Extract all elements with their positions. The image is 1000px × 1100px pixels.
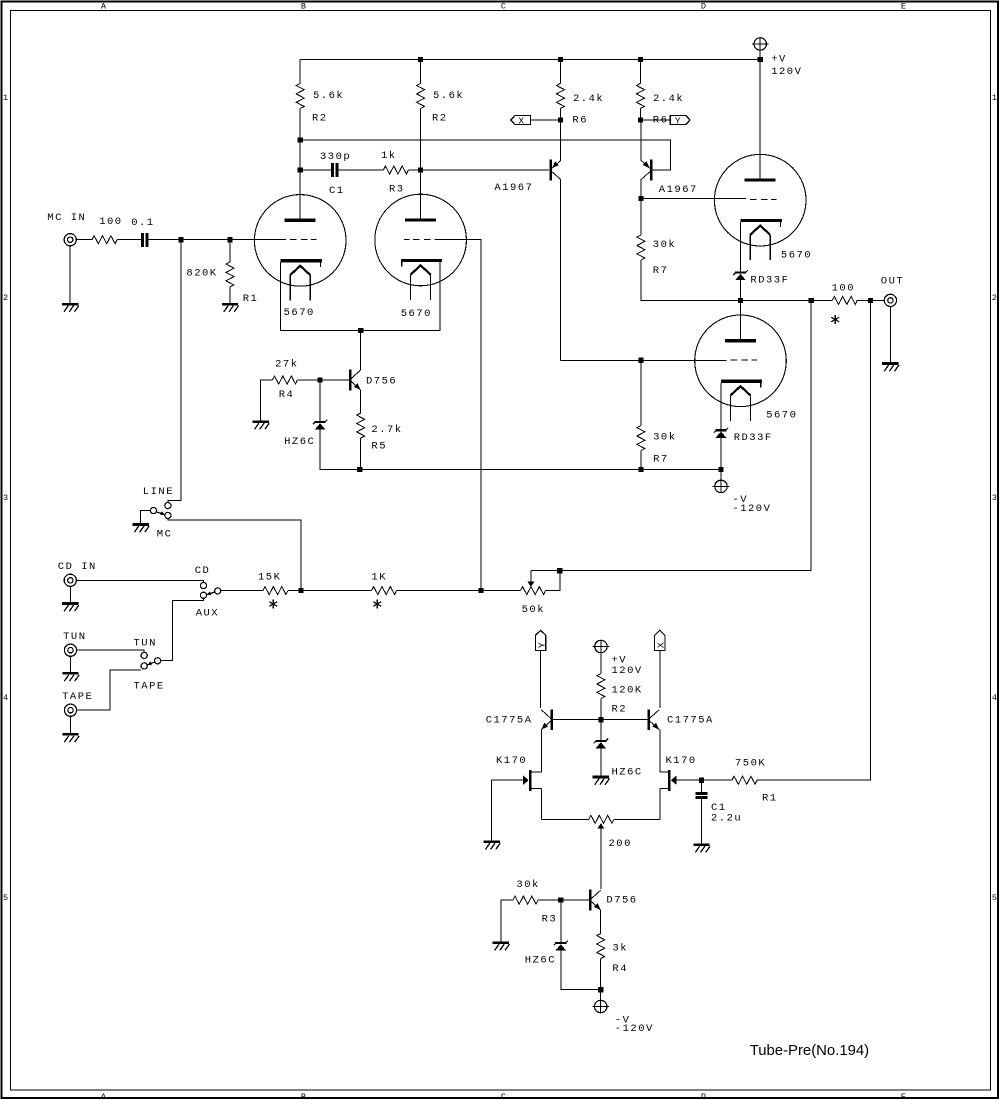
svg-text:R6: R6 [653,115,669,127]
svg-text:1: 1 [3,93,8,103]
label 100 (output) [832,283,855,295]
wire CD to contact [77,580,204,582]
resistor 1K [372,587,397,595]
svg-text:15K: 15K [258,572,281,584]
node wiper junction [557,568,562,573]
svg-text:E: E [901,1092,906,1100]
svg-text:C1: C1 [329,185,345,197]
svg-text:R3: R3 [542,914,558,926]
wire S2 common to 15K [221,590,263,592]
node base-HZ6C tap [318,377,323,382]
svg-text:D756: D756 [606,894,637,906]
wire TUN jack ground [70,656,72,672]
label R6 (left) [572,115,588,127]
label 2.4k (left) [573,93,604,105]
label 2.7k [371,424,402,436]
tube V1 5670 (left triode) [254,195,346,301]
switch S2 common contact [215,588,221,594]
svg-text:3: 3 [992,493,997,503]
wire out line [741,299,812,301]
wire S1 common to ground [141,511,151,524]
svg-text:K170: K170 [666,755,697,767]
wire V4 cathode to zener [720,383,722,429]
flag X lower [655,630,667,650]
svg-text:TUN: TUN [134,638,157,650]
node plate1-C1 tap [298,167,303,172]
ground C1 2.2u [693,845,710,853]
wire rail to R6-1 [560,59,562,83]
wire D756 emitter to R5 [360,390,362,413]
label R3 (30k) [542,914,558,926]
resistor 100 output [832,296,857,304]
wire R6-2 node to Q2 emitter [640,120,642,160]
wire 30k-R3 left [501,900,513,942]
zener D2 RD33F lower [714,428,728,438]
wire HZ6C-2 bottom [561,951,601,990]
wire HZ6C-2 top [560,900,562,942]
svg-text:RD33F: RD33F [750,275,789,287]
label 0.1 [131,217,154,229]
svg-text:100: 100 [832,283,855,295]
node -V lower [598,987,603,992]
node rail-R2b [418,57,423,62]
power +V 120V supply [752,38,769,60]
svg-text:X: X [656,642,667,648]
resistor R1 750K [732,776,757,784]
label R4 (27k) [279,389,295,401]
connector CD IN jack [64,574,76,586]
switch S2 CD contact [200,583,206,589]
svg-text:TAPE: TAPE [134,681,165,693]
resistor R2 120K [597,674,605,699]
svg-text:2.4k: 2.4k [653,93,684,105]
label R2 (left) [312,113,328,125]
label 120K [612,685,643,697]
zener D3 HZ6C (upper) [313,420,327,430]
label -V (lower) [615,1015,631,1027]
wire 30k to base [538,899,589,901]
label R4 (3k) [612,963,628,975]
wire MC jack ground [69,246,71,303]
label 820K [186,268,217,280]
transistor Q5 C1775A (right) [647,709,659,730]
svg-text:R6: R6 [572,115,588,127]
resistor R3 30k [513,896,538,904]
svg-text:2.4k: 2.4k [573,93,604,105]
resistor R7 30k lower [637,426,645,451]
svg-text:2: 2 [992,293,997,303]
wire X flag to Q5 collector [659,651,661,708]
switch S2 lever [207,591,215,595]
wire 3k bottom [600,959,602,990]
wire source line right [614,818,660,820]
svg-text:750K: 750K [735,758,766,770]
label CD IN [58,561,97,573]
svg-text:RD33F: RD33F [734,432,773,444]
resistor R1 820K [226,262,234,287]
transistor Q6 K170 (left) [523,770,541,791]
resistor R7 30k upper [637,235,645,260]
label -120V (lower) [615,1023,654,1035]
svg-text:5670: 5670 [401,308,432,320]
label R3 [389,183,405,195]
power -V 120V lower [592,990,609,1013]
svg-text:5670: 5670 [766,410,797,422]
svg-text:B: B [301,1092,306,1100]
wire K170-2 source down [659,789,661,820]
switch S1 LINE contact [165,503,171,509]
wire Q5 emitter to K170 drain [659,730,661,773]
wire R100out to jack [857,299,884,301]
resistor R2 5.6k right [417,83,425,108]
tube V2 5670 (second triode) [375,194,467,300]
node X flag junction [558,117,563,122]
capacitor C1 330p [331,163,339,177]
svg-text:-120V: -120V [615,1023,654,1035]
label 5670 (V1) [284,307,315,319]
svg-text:R2: R2 [432,113,448,125]
wire Q2 collector down [640,180,642,199]
label CD [195,565,211,577]
transistor Q3 D756 (upper) [349,370,361,391]
svg-text:R4: R4 [612,963,628,975]
connector TUN jack [64,644,76,656]
svg-text:R1: R1 [762,793,778,805]
wire K170-1 gate [492,779,523,781]
label LINE [143,486,174,498]
flag Y lower [535,630,547,650]
wire Q2 collector to tube3 grid [641,198,746,200]
label 5670 (V2) [401,308,432,320]
label R6 (right) [653,115,669,127]
svg-text:30k: 30k [516,879,539,891]
svg-text:C: C [501,1092,506,1100]
label 120V [771,66,802,78]
wire R6-2 to node [640,108,642,120]
wire 820K top [229,240,231,262]
node out-R1 tap [868,298,873,303]
wire AUX routing [161,598,204,660]
svg-text:120V: 120V [771,66,802,78]
svg-text:200: 200 [609,838,632,850]
wire HZ6C-1 bottom [320,430,360,470]
wire jack to R 100 [76,239,92,241]
wire R7-1 to out line [641,260,741,300]
wire wiper line [531,300,811,570]
connector MC IN jack [64,234,76,246]
node -V rail end [718,467,723,472]
wire TAPE to contact [77,670,141,710]
svg-text:R4: R4 [279,389,295,401]
svg-text:R2: R2 [612,704,628,716]
svg-text:HZ6C: HZ6C [284,436,315,448]
node grid4-R7 tap [638,358,643,363]
flag X upper [511,115,531,126]
svg-text:HZ6C: HZ6C [525,954,556,966]
resistor 15K [263,587,288,595]
capacitor C1 2.2u [695,792,707,799]
wire zener2 to -V [720,438,722,470]
switch S3 lever [147,662,155,666]
svg-text:1: 1 [992,93,997,103]
wire plate1 to Q2 base [300,140,670,170]
svg-text:D756: D756 [366,376,397,388]
ground TUN [62,673,79,681]
power +V 120V lower [593,640,610,673]
label D756 (upper) [366,376,397,388]
wire HZ6C-1 top [319,380,321,421]
wire TUN to contact [77,650,145,652]
transistor Q7 K170 (right) [660,770,677,791]
wire Y flag to Q4 collector [540,651,542,708]
ground 27k [253,422,270,430]
label * (output) [831,315,839,324]
ground CD IN [62,604,79,612]
wire base line [553,719,647,721]
svg-text:R2: R2 [312,113,328,125]
label * (15K) [269,599,277,608]
zener D1 RD33F upper [733,270,747,280]
resistor R6 2.4k left [557,83,565,108]
node cathode bus [358,328,363,333]
svg-text:R3: R3 [389,183,405,195]
wire X flag [531,119,561,121]
wire 1K to pot [397,590,521,592]
node R7-2 -V [638,467,643,472]
label 120V (lower) [612,665,643,677]
label C1 (330p) [329,185,345,197]
svg-text:E: E [901,1,906,11]
svg-text:+V: +V [771,53,787,65]
svg-text:MC: MC [157,529,173,541]
wire R100 to cap [117,239,141,241]
wire plate4 lead [740,300,742,339]
wire R2-1 to plate [299,108,301,218]
resistor R4 3k [597,934,605,959]
wire C1 cap top [701,780,703,792]
wire K170-1 gate ground [491,780,493,840]
svg-text:Y: Y [536,642,547,648]
transistor Q8 D756 (lower) [589,890,601,911]
svg-text:TUN: TUN [63,631,86,643]
label K170 (left) [496,755,527,767]
label TAPE (switch) [134,681,165,693]
svg-text:3k: 3k [612,942,628,954]
switch S3 common contact [155,658,161,664]
label TUN (switch) [134,638,157,650]
label 750K [735,758,766,770]
svg-text:C1775A: C1775A [667,714,714,726]
resistor R4 27k [272,376,297,384]
svg-text:100: 100 [99,216,122,228]
label D756 (lower) [606,894,637,906]
wire TAPE jack ground [70,716,72,733]
label * (1K) [373,599,381,608]
flag Y upper [670,115,690,126]
label R7 (lower) [653,454,669,466]
svg-text:2: 2 [3,293,8,303]
connector TAPE jack [64,704,76,716]
label 1k [381,150,397,162]
svg-text:Y: Y [675,115,681,126]
wire rail to R2-1 [299,59,301,83]
wire rail to R6-2 [640,59,642,83]
svg-text:Tube-Pre(No.194): Tube-Pre(No.194) [750,1043,869,1059]
svg-text:120K: 120K [612,685,643,697]
ground MC IN [62,304,79,312]
label 27k [275,359,298,371]
svg-text:R7: R7 [653,454,669,466]
wire plate3 lead [759,59,761,178]
power -V 120V upper [713,470,730,493]
wire C1 cap ground [701,799,703,844]
svg-text:R5: R5 [371,440,387,452]
node plate2-R3 tap [418,167,423,172]
wire V2 cathode down [361,262,441,331]
label C1 (2.2u) [711,802,727,814]
transistor Q4 C1775A (left) [541,709,553,730]
svg-text:HZ6C: HZ6C [612,767,643,779]
ground OUT [882,364,899,372]
label HZ6C (bottom) [525,954,556,966]
node out-plate4 [738,298,743,303]
resistor R2 5.6k left [296,83,304,108]
wire CD jack ground [69,586,71,602]
switch S3 TUN contact [141,652,147,658]
resistor R3 1k [383,166,408,174]
wire Q1 collector down [560,180,562,360]
label -120V (upper) [732,503,771,515]
svg-text:5.6k: 5.6k [433,90,464,102]
wire HZ6C-3 bottom [600,749,602,776]
svg-text:R7: R7 [653,265,669,277]
label 1K [371,572,387,584]
svg-text:B: B [301,1,306,11]
node Y flag junction [638,117,643,122]
label 5.6k (R2 left) [313,90,344,102]
svg-text:CD IN: CD IN [58,561,97,573]
resistor R5 2.7k [357,413,365,438]
wire plate2 node to Q1 base [421,169,550,171]
node plate1-base2 tap [298,137,303,142]
label A1967 (left) [494,182,533,194]
label R2 (right) [432,113,448,125]
label 5670 (V3) [781,250,812,262]
resistor 100 input [92,236,117,244]
label 30k (lower) [653,432,676,444]
svg-text:1k: 1k [381,150,397,162]
label 30k (upper) [653,239,676,251]
wire source line left [541,818,589,820]
potentiometer 200 [589,815,614,889]
svg-text:A: A [101,1,107,11]
svg-text:R1: R1 [243,293,259,305]
label 15K [258,572,281,584]
svg-text:50k: 50k [522,604,545,616]
ground S1 [132,525,149,533]
svg-text:27k: 27k [275,359,298,371]
wire Q1 collector to tube4 grid [561,359,727,361]
svg-text:MC IN: MC IN [47,212,86,224]
ground 820K [222,304,239,312]
wire out line 2 [811,299,832,301]
zener D4 HZ6C (middle) [594,739,608,749]
ground HZ6C middle [593,777,610,785]
label 5.6k (R2 right) [433,90,464,102]
wire -V line [320,469,721,471]
wire V3 cathode to zener [740,222,742,272]
svg-text:A1967: A1967 [494,182,533,194]
svg-text:30k: 30k [653,239,676,251]
svg-text:4: 4 [992,693,997,703]
svg-text:5: 5 [992,893,997,903]
svg-text:4: 4 [3,693,8,703]
svg-text:A: A [101,1092,107,1100]
label A1967 (right) [659,184,698,196]
label OUT [881,275,904,287]
svg-text:1K: 1K [371,572,387,584]
potentiometer 50k [521,571,546,595]
label R1 (750K) [762,793,778,805]
tube V4 5670 (lower follower) [695,315,787,421]
wire MC contact to bus [168,519,301,591]
wire HZ6C-3 top [600,720,602,740]
svg-text:A1967: A1967 [659,184,698,196]
wire input to LINE contact [168,240,181,503]
svg-text:D: D [701,1092,706,1100]
svg-text:-120V: -120V [732,503,771,515]
svg-text:CD: CD [195,565,211,577]
node rail-R6a [558,57,563,62]
resistor R6 2.4k right [637,83,645,108]
wire D756-2 emitter to 3k [600,910,602,934]
wire bus to D756 collector [360,331,362,371]
tube V3 5670 (upper follower) [714,154,806,260]
label 5670 (V4) [766,410,797,422]
node 820K tap [227,237,232,242]
wire cap to grid [149,239,230,241]
label 100 (input) [99,216,122,228]
wire K170-1 source down [540,789,542,820]
wire R6-1 to node [560,108,562,120]
transistor Q1 A1967 (left) [549,160,561,181]
svg-text:C1775A: C1775A [486,714,533,726]
wire V2 grid feedback [435,240,482,591]
label K170 (right) [666,755,697,767]
wire 15K to 1K [288,590,372,592]
label 2.2u [711,813,742,825]
svg-text:5.6k: 5.6k [313,90,344,102]
wire plate1 to C1 [300,169,331,171]
label 2.4k (right) [653,93,684,105]
svg-text:820K: 820K [186,268,217,280]
wire V1 grid lead [230,239,286,241]
switch S2 AUX contact [200,592,206,598]
label MC [157,529,173,541]
label R5 [371,440,387,452]
label HZ6C (middle) [612,767,643,779]
svg-text:LINE: LINE [143,486,174,498]
svg-text:5670: 5670 [284,307,315,319]
label AUX [196,608,219,620]
label TUN (jack) [63,631,86,643]
label 3k [612,942,628,954]
svg-text:K170: K170 [496,755,527,767]
label RD33F (upper) [750,275,789,287]
ground K170 left [483,842,500,850]
wire K170-2 gate [676,779,732,781]
label +V (lower) [612,655,628,667]
